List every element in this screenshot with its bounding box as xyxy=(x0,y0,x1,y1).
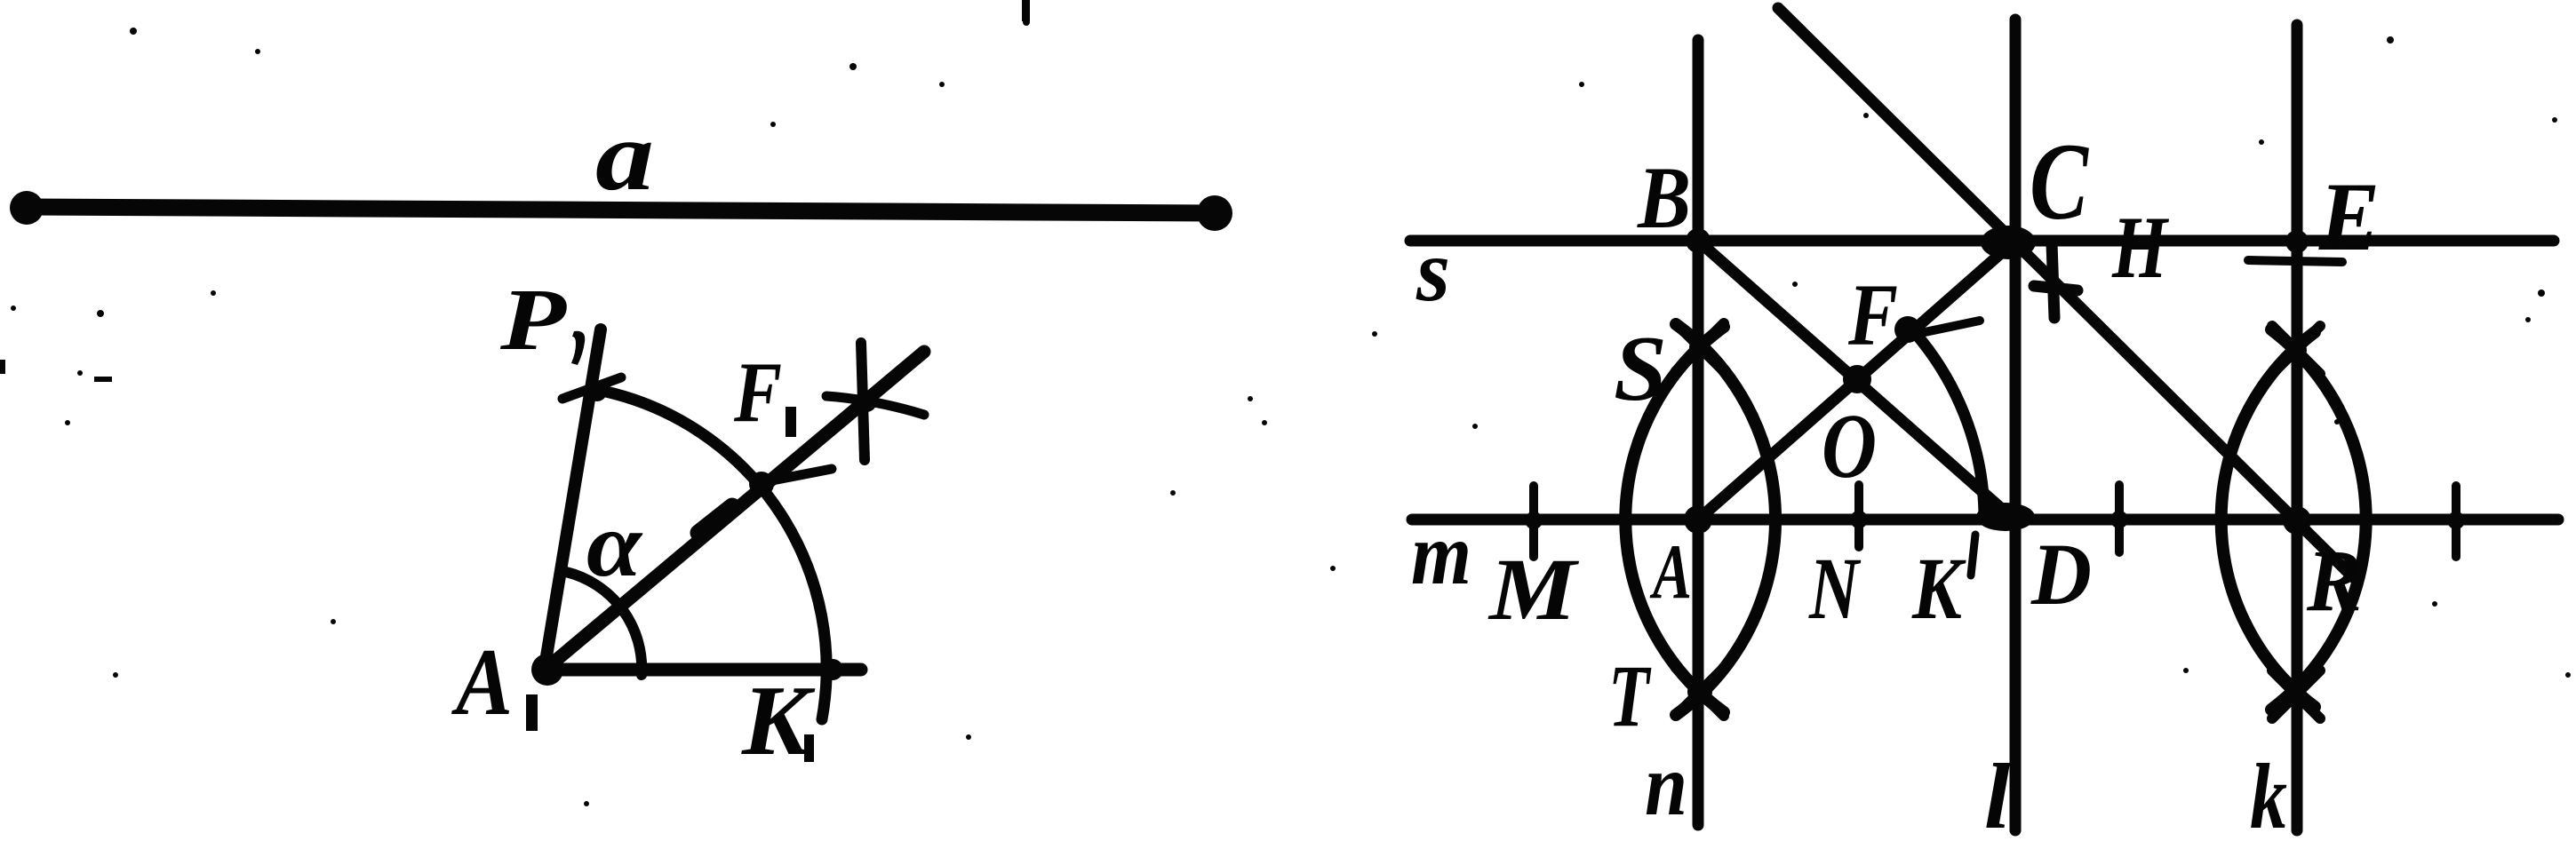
blob R xyxy=(2283,506,2311,535)
blob lens R top crossing xyxy=(2285,339,2307,361)
small angle arc at A1 xyxy=(566,572,642,675)
cross tick at H vertical xyxy=(2052,243,2054,318)
X ticks at S crossing xyxy=(1676,323,1724,371)
line l xyxy=(2010,20,2022,830)
junction blob K1 xyxy=(822,659,843,680)
svg-text:F: F xyxy=(733,345,782,440)
diagonal A to C xyxy=(1698,241,2015,520)
blob S crossing xyxy=(1689,337,1711,358)
short thick dash on diagonal xyxy=(698,506,732,533)
svg-text:B: B xyxy=(1637,148,1691,247)
junction blob arc-ray at P1 xyxy=(587,382,607,401)
blob B xyxy=(1686,228,1711,253)
svg-text:N: N xyxy=(1808,539,1862,638)
large arc through P1 F1 K1 centered A1 xyxy=(606,392,826,719)
prime tick near K xyxy=(1971,535,1975,575)
tick at F on AC xyxy=(1912,321,1980,335)
svg-text:O: O xyxy=(1822,395,1877,497)
tick M on m xyxy=(1529,486,1538,557)
blob lens R bottom crossing xyxy=(2285,684,2307,705)
blob O crossing xyxy=(1843,365,1871,393)
diagonal through C and R xyxy=(1778,8,2353,577)
tick on m right of D xyxy=(2115,485,2124,552)
X ticks at lens R bottom crossing xyxy=(2272,670,2320,718)
ray A1-P1 (steep) xyxy=(544,329,601,672)
svg-text:S: S xyxy=(1614,316,1667,420)
svg-text:K: K xyxy=(741,666,815,776)
svg-text:D: D xyxy=(2030,525,2092,623)
tick N on m xyxy=(1854,485,1863,547)
svg-text:T: T xyxy=(1608,647,1652,745)
svg-text:M: M xyxy=(1487,540,1580,639)
cross tick curved on diagonal end xyxy=(826,396,924,415)
lens around R: arc centered right tick xyxy=(2221,332,2315,707)
cross tick vertical on diagonal end xyxy=(861,343,865,460)
svg-text:A: A xyxy=(1649,529,1692,615)
tick dash at E on s xyxy=(2248,260,2342,262)
svg-text:F: F xyxy=(1847,266,1898,364)
ray A1-K1 (horizontal) xyxy=(544,663,861,677)
tick at P1 xyxy=(562,377,621,399)
svg-text:H: H xyxy=(2111,198,2169,297)
arc F to K centered A xyxy=(1910,328,1984,513)
svg-text:A: A xyxy=(451,630,513,735)
blob F on AC xyxy=(1894,316,1921,343)
blob T crossing xyxy=(1687,679,1712,704)
segment a right endpoint dot xyxy=(1197,195,1232,231)
line m xyxy=(1412,514,2558,526)
X ticks at T crossing xyxy=(1676,668,1724,716)
scan edge mark top xyxy=(1022,0,1030,21)
tick at F1 xyxy=(768,469,832,481)
segment a left endpoint dot xyxy=(10,191,44,225)
svg-text:k: k xyxy=(2250,744,2287,841)
line s xyxy=(1410,235,2554,247)
svg-text:l: l xyxy=(1984,744,2011,841)
blob A xyxy=(1684,505,1712,534)
cross tick at H horizontal xyxy=(2034,286,2078,290)
svg-text:K: K xyxy=(1911,539,1966,638)
segment a xyxy=(27,207,1216,213)
scan edge mark left xyxy=(0,360,5,374)
ray A1 through F1 (diagonal) xyxy=(544,352,924,670)
blob K D on m xyxy=(1976,503,2035,531)
svg-text:α: α xyxy=(586,494,643,596)
lens around A: arc centered N xyxy=(1625,327,1724,712)
lens around A: arc centered M xyxy=(1676,324,1775,715)
lens around R: arc centered left tick xyxy=(2271,329,2366,710)
junction blob cross xyxy=(856,391,877,412)
svg-text:R: R xyxy=(2306,531,2362,630)
svg-text:m: m xyxy=(1411,504,1471,603)
svg-text:a: a xyxy=(595,101,654,211)
blob E xyxy=(2285,230,2309,253)
vertex A1 dot xyxy=(531,654,563,686)
junction blob F1 xyxy=(749,472,774,496)
svg-text:s: s xyxy=(1416,221,1450,320)
diagonal B to D xyxy=(1698,241,2011,517)
line n xyxy=(1693,40,1704,825)
blob C xyxy=(1981,226,2036,259)
line k xyxy=(2292,25,2303,830)
svg-text:C: C xyxy=(2030,121,2089,242)
svg-text:E: E xyxy=(2318,163,2380,271)
tick on m right of R xyxy=(2452,486,2460,557)
svg-text:n: n xyxy=(1645,735,1687,834)
svg-text:P: P xyxy=(499,270,567,369)
X ticks at lens R top crossing xyxy=(2272,326,2320,374)
